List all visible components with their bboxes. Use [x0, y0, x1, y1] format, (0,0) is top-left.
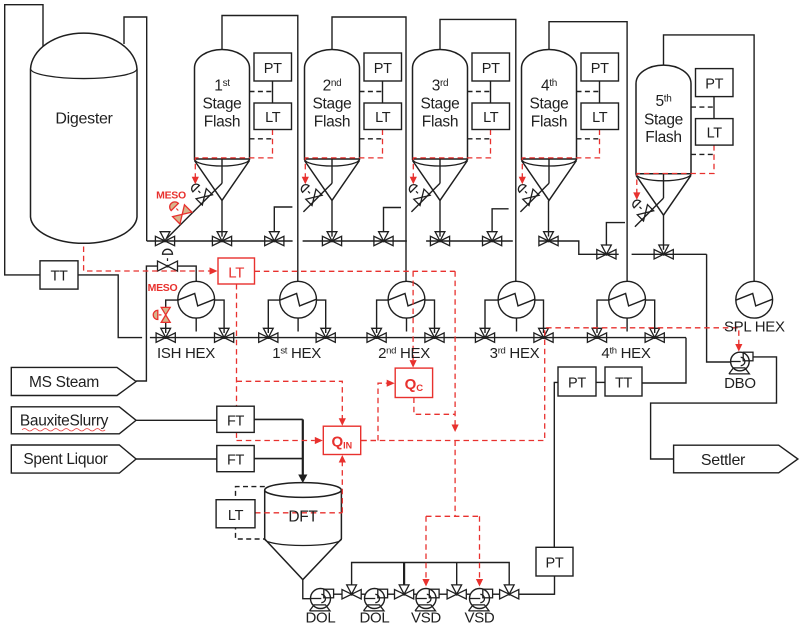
svg-text:SPL HEX: SPL HEX [724, 319, 785, 336]
actuator dome flash 1 [198, 191, 200, 193]
valve pump discharge 3 [447, 590, 457, 599]
dashed tap PT1 [250, 91, 273, 93]
svg-text:Digester: Digester [55, 111, 113, 128]
valve V3 [265, 236, 275, 245]
arrow into QIN left [315, 437, 323, 444]
heat exchanger ISH HEX [178, 281, 215, 318]
pump VSD 1 [416, 589, 436, 609]
valve V12 ISH outlet [215, 333, 225, 342]
wire flash 1 drain diagonal [167, 183, 222, 238]
wire flash bottoms header section 3 [426, 240, 513, 242]
instrument box FT bauxite [217, 406, 254, 432]
wire 3rd HEX left leg [485, 300, 498, 333]
dashed tap LT3 [468, 138, 491, 140]
arrow into DBO pump [735, 344, 742, 352]
wire flash bottoms header section 1 [147, 240, 293, 242]
valve V19 4th HEX inlet [587, 333, 597, 342]
actuator dome flash 3 [416, 191, 418, 193]
valve pump discharge 2 [395, 590, 405, 599]
valve V6 flash3 outlet [430, 236, 440, 245]
wire flash 4 cone outlet [548, 201, 550, 237]
wire PT-TT link [596, 381, 605, 383]
svg-text:Flash: Flash [204, 113, 240, 130]
arrow into red LT box [210, 267, 218, 274]
arrow at flash 4 blowdown [519, 177, 526, 185]
arrow at flash 5 blowdown [633, 192, 640, 200]
signal LT5 to blowdown valve [637, 145, 714, 193]
wire manifold drop 2 [403, 563, 405, 586]
arrow at flash 1 blowdown [192, 177, 199, 185]
svg-text:DFT: DFT [288, 509, 318, 526]
svg-text:TT: TT [50, 269, 68, 285]
vessel flash 2 bottom dish [305, 159, 360, 166]
instrument box TT 4th HEX [605, 367, 642, 396]
signal QIN right to QC left [361, 383, 387, 440]
wire pump discharge [493, 593, 500, 595]
wire flash 2 drain diagonal [303, 183, 332, 212]
svg-text:PT: PT [591, 61, 609, 77]
svg-text:DOL: DOL [306, 610, 336, 627]
wire flash 2 steam line to heater [332, 17, 406, 281]
svg-text:Stage: Stage [312, 96, 351, 113]
wire PT to riser [554, 382, 558, 547]
wire flash 3 cone outlet [439, 201, 441, 237]
dashed tap PT4 [577, 91, 600, 93]
valve V14 1st HEX outlet [316, 333, 326, 342]
vessel DFT cone [265, 539, 342, 580]
valve V9 [597, 250, 607, 259]
arrow into VSD pump 2 [476, 579, 483, 587]
wire manifold drop 3 [456, 563, 458, 586]
wire flash 3 dip tube [439, 151, 441, 183]
signal LT box to QC/QIN drop [255, 270, 456, 272]
svg-text:PT: PT [264, 61, 282, 77]
wire riser at valve V3B [492, 209, 509, 232]
wire 2nd HEX left leg [377, 300, 389, 333]
wire 1st HEX right leg [317, 300, 326, 333]
wire pump discharge riser [519, 576, 555, 594]
wire TT to heater liquor header [78, 275, 142, 338]
vessel flash 1 bottom dish [195, 159, 250, 166]
link PT1-LT1 [272, 81, 274, 103]
signal FT branch to QIN top [237, 381, 343, 418]
wire flash 2 cone outlet [331, 201, 333, 237]
svg-text:MESO: MESO [148, 282, 178, 294]
valve flash 2 blowdown [314, 189, 322, 197]
svg-text:3rd HEX: 3rd HEX [490, 345, 540, 362]
wire flash 5 dip tube [663, 166, 665, 198]
vessel DFT body [265, 490, 342, 539]
heat exchanger 3rd HEX [498, 281, 535, 318]
actuator dome flash 5 [640, 207, 642, 209]
valve flash 5 blowdown [646, 205, 654, 213]
pump DBO [731, 352, 750, 371]
valve V16 2nd HEX outlet [425, 333, 435, 342]
wire digester top to TT (left loop) [5, 5, 43, 275]
signal drop to mixer line [454, 271, 456, 424]
valve MESO flash1 (control) [182, 205, 192, 215]
wire 4th HEX left leg [597, 300, 609, 333]
signal LT4 to blowdown valve [522, 130, 599, 178]
svg-text:Spent Liquor: Spent Liquor [23, 451, 107, 468]
squiggle spellcheck [22, 429, 105, 431]
svg-text:MESO: MESO [156, 190, 186, 202]
instrument box FT spent liquor [217, 446, 254, 472]
wire flash 3 drain diagonal [411, 183, 440, 212]
vessel flash 3 body [413, 50, 468, 160]
instrument box PT flash 5 [696, 69, 734, 97]
valve pump discharge 1 [342, 590, 352, 599]
heat exchanger 4th HEX [609, 281, 646, 318]
actuator dome MESO flash1 [176, 209, 178, 211]
svg-text:MS Steam: MS Steam [29, 374, 99, 391]
svg-text:PT: PT [705, 76, 723, 92]
wire Spent Liquor to FT [136, 458, 217, 460]
vessel flash 1 cone [195, 161, 250, 201]
link PT3-LT3 [490, 81, 492, 103]
wire to next pump [414, 593, 420, 595]
wire steam valve to ISH HEX [178, 266, 197, 281]
svg-text:LT: LT [228, 508, 244, 524]
link PT5-LT5 [713, 97, 715, 119]
signal to VSD pumps [426, 441, 480, 580]
wire BauxiteSlurry to FT [136, 419, 217, 421]
valve V5 [374, 236, 384, 245]
wire flash 5 cone outlet [663, 215, 665, 250]
valve MESO ISH (control) [161, 307, 170, 315]
svg-text:FT: FT [227, 413, 245, 429]
svg-text:LT: LT [707, 125, 723, 141]
valve V8 flash4 outlet [539, 236, 549, 245]
vessel flash 1 body [195, 50, 250, 160]
wire MS steam riser [136, 266, 157, 381]
signal LT2 to blowdown valve [305, 130, 382, 178]
input Spent Liquor [11, 445, 136, 473]
wire ISH HEX left port to MESO valve [166, 300, 178, 307]
svg-text:Stage: Stage [644, 111, 683, 128]
valve V11 ISH inlet [156, 333, 166, 342]
valve flash 3 blowdown [422, 189, 430, 197]
wire flash 1 steam line to heater [222, 16, 298, 282]
signal DFT level to QIN bottom [255, 462, 342, 513]
dashed tap LT4 [577, 138, 600, 140]
vessel flash 5 cone [636, 175, 691, 215]
svg-text:VSD: VSD [411, 610, 441, 627]
wire pump recirculation manifold [352, 563, 510, 586]
heat exchanger 1st HEX [280, 281, 317, 318]
actuator dome flash 2 [308, 191, 310, 193]
vessel flash 5 bottom dish [636, 174, 691, 181]
instrument box LT DFT [216, 500, 255, 528]
vessel DFT top ellipse [265, 483, 342, 498]
svg-text:Flash: Flash [531, 113, 567, 130]
instrument box PT flash 3 [472, 53, 510, 81]
wire flash 4 dip tube [548, 151, 550, 183]
svg-text:Stage: Stage [529, 96, 568, 113]
signal QIN line to DBO [361, 328, 739, 441]
vessel flash 2 body [305, 50, 360, 160]
valve MS steam control [158, 261, 168, 271]
pump VSD 2 [470, 589, 490, 609]
signal red LT box down [236, 284, 238, 406]
vessel flash 4 bottom dish [522, 159, 577, 166]
wire ISH HEX right leg [215, 300, 225, 333]
svg-text:1st HEX: 1st HEX [272, 345, 321, 362]
valve V18 3rd HEX outlet [534, 333, 544, 342]
wire digester top to flash bottoms header [124, 17, 147, 241]
valve V1 flash header [155, 236, 165, 245]
instrument box LT flash 2 [364, 103, 402, 130]
instrument box PT flash 4 [581, 53, 619, 81]
svg-text:LT: LT [375, 110, 391, 126]
wire flash 5 drain diagonal [635, 198, 664, 227]
wire 3rd HEX right leg [535, 300, 544, 333]
block QC (cooling duty) [395, 368, 432, 397]
vessel flash 2 cone [305, 161, 360, 201]
svg-text:BauxiteSlurry: BauxiteSlurry [20, 413, 109, 430]
arrow onto QIN line [452, 425, 459, 433]
wire flash5 bottoms segment [632, 253, 707, 255]
svg-text:LT: LT [228, 265, 244, 282]
instrument box PT pump discharge [536, 547, 573, 576]
valve flash 1 blowdown [204, 189, 212, 197]
svg-text:DBO: DBO [724, 375, 756, 392]
svg-text:Stage: Stage [420, 96, 459, 113]
dashed tap LT5 [691, 153, 714, 155]
wire flash 3 steam line to heater [440, 19, 516, 281]
wire DFT outlet [303, 579, 311, 598]
arrow into QC left [387, 380, 395, 387]
instrument box TT digester [40, 261, 78, 289]
svg-text:FT: FT [227, 453, 245, 469]
svg-text:PT: PT [374, 61, 392, 77]
wire pump discharge [439, 593, 447, 595]
instrument box LT flash 3 [472, 103, 510, 130]
signal QIN line left [237, 440, 315, 442]
valve flash 4 blowdown [531, 189, 539, 197]
svg-text:LT: LT [592, 110, 608, 126]
wire riser at valve C [274, 207, 292, 232]
valve pump discharge 4 [500, 590, 510, 599]
instrument box LT flash 1 [254, 103, 292, 130]
arrow into VSD pump 1 [422, 579, 429, 587]
vessel flash 3 bottom dish [413, 159, 468, 166]
svg-text:TT: TT [615, 376, 633, 392]
valve V10 flash5 outlet [654, 250, 664, 259]
svg-text:ISH HEX: ISH HEX [157, 345, 215, 362]
arrow into QIN top [339, 418, 346, 426]
wire flash5 bottoms to DBO pump [707, 254, 731, 362]
svg-text:Flash: Flash [422, 113, 458, 130]
block QIN (heat input) [323, 426, 360, 454]
pump DOL 2 [365, 589, 385, 609]
wire pump discharge [334, 593, 342, 595]
wire flash 2 dip tube [331, 151, 333, 183]
vessel DFT bottom dish [265, 539, 342, 546]
svg-text:LT: LT [265, 110, 281, 126]
wire 2nd HEX right leg [425, 300, 435, 333]
valve V20 4th HEX outlet [645, 333, 655, 342]
wire to next pump [361, 593, 368, 595]
signal drop to QC [412, 271, 414, 360]
link PT4-LT4 [599, 81, 601, 103]
wire 4th HEX bottom stub [626, 318, 628, 331]
wire 1st HEX left leg [268, 300, 279, 333]
svg-text:DOL: DOL [360, 610, 390, 627]
valve V4 flash2 outlet [322, 236, 332, 245]
wire 1st HEX bottom stub [297, 318, 299, 331]
svg-text:Stage: Stage [202, 96, 241, 113]
vessel Digester [31, 33, 138, 243]
pump DOL 1 [311, 589, 331, 609]
svg-text:PT: PT [568, 376, 586, 392]
valve V17 3rd HEX inlet [475, 333, 485, 342]
link PT2-LT2 [382, 81, 384, 103]
arrow at flash 3 blowdown [410, 177, 417, 185]
signal QC bottom loop [414, 398, 455, 415]
signal digester temperature to LT [84, 247, 210, 272]
svg-text:Settler: Settler [701, 452, 746, 469]
vessel flash 5 body [636, 65, 691, 174]
svg-text:PT: PT [482, 61, 500, 77]
wire flash bottoms header section 2 [303, 240, 407, 242]
wire MESO valve to valve D [165, 322, 167, 333]
wire FT1 to DFT feed [254, 418, 303, 420]
dashed tap PT3 [468, 91, 491, 93]
output Settler [674, 445, 798, 473]
instrument box LT red (level controller) [218, 258, 255, 284]
vessel flash 4 body [522, 50, 577, 160]
instrument box PT flash 1 [254, 53, 292, 81]
wire heater liquor header left [150, 337, 686, 339]
wire flash 1 dip tube [221, 151, 223, 183]
wire pump discharge [388, 593, 395, 595]
wire flash 4 steam line to heater [549, 22, 627, 282]
wire DFT feed drop [302, 419, 304, 475]
heat exchanger SPL HEX [736, 281, 773, 318]
signal FT1 below to QIN line [236, 432, 238, 440]
vessel Digester top rim [31, 69, 138, 79]
input MS Steam [11, 367, 136, 395]
valve V13 1st HEX inlet [259, 333, 269, 342]
valve V2 flash1 outlet [212, 236, 222, 245]
svg-text:4th HEX: 4th HEX [601, 345, 650, 362]
vessel flash 4 cone [522, 161, 577, 201]
arrow into DFT [298, 475, 307, 484]
dashed tap PT5 [691, 106, 714, 108]
wire liquor header right drop to TT [642, 338, 686, 383]
dashed tap PT2 [360, 91, 383, 93]
signal LT3 to blowdown valve [413, 130, 490, 178]
wire DBO discharge to Settler [651, 357, 777, 459]
heat exchanger 2nd HEX [388, 281, 425, 318]
instrument box LT flash 4 [581, 103, 619, 130]
wire to next pump [466, 593, 473, 595]
actuator dome flash 4 [525, 191, 527, 193]
valve V15 2nd HEX inlet [367, 333, 377, 342]
dashed tap LT2 [360, 138, 383, 140]
instrument box PT 4th HEX [558, 367, 596, 396]
valve V7 [483, 236, 493, 245]
dashed bracket DFT level transmitter [236, 487, 265, 539]
actuator dome MESO ISH [159, 314, 162, 316]
svg-text:VSD: VSD [465, 610, 495, 627]
arrow at flash 2 blowdown [302, 177, 309, 185]
instrument box PT flash 2 [364, 53, 402, 81]
wire FT2 to DFT feed [254, 458, 303, 460]
dashed tap LT1 [250, 138, 273, 140]
wire flash bottoms header section 4 [539, 241, 619, 254]
svg-text:Flash: Flash [314, 113, 350, 130]
wire ISH HEX bottom stub [195, 318, 197, 331]
instrument box LT flash 5 [696, 119, 734, 146]
wire 2nd HEX bottom stub [406, 318, 408, 331]
wire flash 4 drain diagonal [520, 183, 549, 212]
wire 3rd HEX bottom stub [516, 318, 518, 331]
svg-text:Flash: Flash [645, 129, 681, 146]
svg-text:2nd HEX: 2nd HEX [378, 345, 430, 362]
wire valve4 to riser [519, 593, 555, 595]
wire riser at valve V5L [606, 223, 625, 246]
signal LT1 to blowdown valve [195, 130, 272, 178]
arrow into QC top [410, 360, 417, 368]
wire 4th HEX right leg [646, 300, 655, 333]
svg-text:LT: LT [483, 110, 499, 126]
vessel flash 3 cone [413, 161, 468, 201]
arrow into QIN bottom [339, 455, 346, 463]
svg-text:PT: PT [546, 556, 564, 572]
wire flash 1 cone outlet [221, 201, 223, 237]
wire flash 5 steam line to heater [664, 35, 755, 281]
wire riser at valve V2B [384, 208, 402, 233]
input BauxiteSlurry [11, 407, 136, 434]
